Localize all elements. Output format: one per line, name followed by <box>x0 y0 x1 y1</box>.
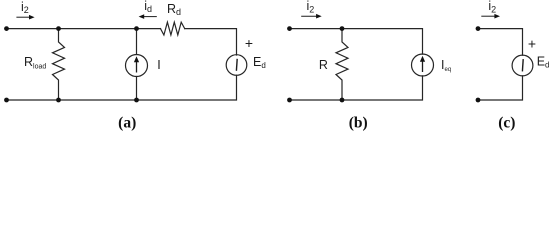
svg-text:Ed: Ed <box>537 55 550 70</box>
svg-text:+: + <box>245 35 253 51</box>
svg-text:R: R <box>319 58 328 72</box>
node terminal top-left (c) <box>476 26 481 31</box>
bar inside voltage source Ed (c) <box>521 59 524 71</box>
wire top right segment (a) <box>185 29 237 55</box>
node junction Rload top (a) <box>56 26 61 31</box>
svg-text:Ed: Ed <box>253 55 266 70</box>
node junction R bottom (b) <box>340 98 345 103</box>
arrow inside current source Ieq (b) <box>420 56 425 72</box>
arrow i2 (a) <box>16 15 34 20</box>
resistor Rload <box>53 29 65 100</box>
voltage source Ed circle (c) <box>512 55 533 76</box>
svg-text:+: + <box>528 36 536 52</box>
wire top rail (c) <box>478 29 523 55</box>
node terminal bottom-left (c) <box>476 98 481 103</box>
svg-text:(a): (a) <box>118 115 136 132</box>
arrow id (a) <box>139 14 157 19</box>
svg-text:Rload: Rload <box>24 55 46 70</box>
wire top rail (b) <box>290 29 423 54</box>
resistor R (b) <box>336 29 348 100</box>
arrow i2 (b) <box>301 14 322 19</box>
svg-text:i2: i2 <box>488 0 496 14</box>
node junction I top (a) <box>134 26 139 31</box>
svg-text:id: id <box>144 0 152 14</box>
svg-text:Ieq: Ieq <box>441 58 451 73</box>
wire current source I top (a) <box>136 29 138 55</box>
current source I circle <box>126 55 148 77</box>
node junction I bottom (a) <box>134 98 139 103</box>
current source Ieq circle <box>412 54 434 76</box>
node terminal bottom-left (a) <box>4 98 9 103</box>
svg-text:(b): (b) <box>349 115 368 132</box>
wire current source I bottom (a) <box>136 77 138 101</box>
node junction Rload bottom (a) <box>56 98 61 103</box>
bar inside voltage source Ed (a) <box>235 59 238 71</box>
node junction R top (b) <box>340 26 345 31</box>
svg-text:Rd: Rd <box>167 2 181 17</box>
resistor Rd <box>161 22 185 35</box>
arrow inside current source I (a) <box>134 56 139 72</box>
wire bottom rail (a) <box>7 75 237 100</box>
wire top rail (a) <box>7 28 161 30</box>
wire bottom rail (c) <box>478 76 523 100</box>
node terminal bottom-left (b) <box>287 98 292 103</box>
voltage source Ed circle (a) <box>226 55 247 76</box>
svg-text:i2: i2 <box>307 0 315 14</box>
wire bottom rail (b) <box>290 76 423 100</box>
arrow i2 (c) <box>481 14 500 19</box>
svg-text:i2: i2 <box>21 0 29 15</box>
node terminal top-left (b) <box>287 26 292 31</box>
svg-text:I: I <box>157 58 160 72</box>
svg-text:(c): (c) <box>498 115 515 132</box>
node terminal top-left (a) <box>4 26 9 31</box>
